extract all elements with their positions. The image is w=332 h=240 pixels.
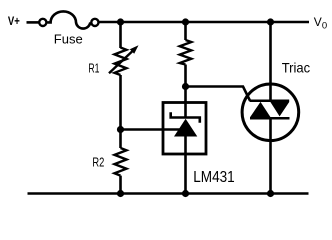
wire top rail to R1 <box>119 22 122 48</box>
wire R1 to R2 <box>119 75 122 148</box>
wire LM431 anode to ground rail <box>184 136 187 194</box>
resistor R1 adjustment arrowhead <box>130 45 139 54</box>
wire top rail <box>100 21 310 24</box>
svg-text:Triac: Triac <box>282 60 311 76</box>
triac bottom bar <box>250 117 290 120</box>
wire top rail to middle resistor <box>184 22 187 40</box>
resistor R2 zigzag <box>115 148 127 176</box>
wire gate node to triac gate <box>186 87 251 101</box>
wire triac MT1 to ground rail <box>269 117 272 194</box>
triac left triangle (points up) <box>250 102 270 117</box>
wire from V+ to fuse <box>27 21 39 24</box>
svg-text:LM431: LM431 <box>193 169 235 186</box>
wire bias resistor to gate node <box>184 65 187 104</box>
wire divider node to LM431 reference <box>121 128 180 131</box>
node junction dot ground triac <box>267 190 274 197</box>
svg-text:R2: R2 <box>92 156 104 170</box>
node junction dot top of R1 <box>117 18 124 25</box>
node junction dot ground LM431 <box>182 190 189 197</box>
triac circle body <box>242 84 299 141</box>
svg-text:Fuse: Fuse <box>54 32 83 47</box>
node junction dot top of middle resistor <box>182 18 189 25</box>
wire ground rail <box>28 192 309 195</box>
svg-text:V0: V0 <box>314 15 327 31</box>
LM431 cathode bar with bent ends <box>171 112 200 123</box>
resistor upper bias zigzag <box>180 40 192 65</box>
svg-text:R1: R1 <box>88 62 99 76</box>
fuse F1 right terminal circle <box>91 19 98 26</box>
svg-text:V+: V+ <box>8 15 20 28</box>
fuse F1 body <box>47 11 90 28</box>
LM431 anode triangle (points up) <box>174 119 197 137</box>
node junction dot top of triac <box>267 18 274 25</box>
wire top rail to triac MT2 <box>269 22 272 101</box>
node junction dot R1/R2 divider <box>117 126 124 133</box>
node junction dot gate node <box>182 83 189 90</box>
triac top bar <box>250 99 290 102</box>
triac right triangle (points down) <box>270 102 289 116</box>
resistor R1 zigzag <box>115 48 127 76</box>
LM431 cathode lead inside box <box>184 101 187 118</box>
regulator U1 LM431 box <box>163 103 206 155</box>
wire R2 to ground rail <box>119 176 122 194</box>
resistor R1 adjustment arrow shaft <box>109 51 133 74</box>
fuse F1 left terminal circle <box>39 19 46 26</box>
node junction dot ground R2 <box>117 190 124 197</box>
